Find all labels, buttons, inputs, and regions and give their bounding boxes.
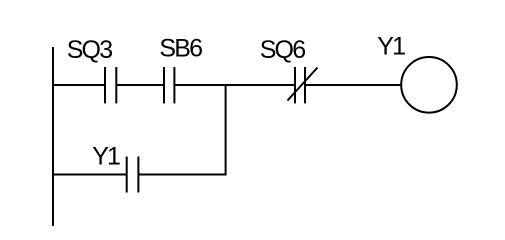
svg-text:Y1: Y1 <box>92 143 120 171</box>
svg-text:SQ3: SQ3 <box>67 36 113 64</box>
svg-text:Y1: Y1 <box>377 32 405 60</box>
svg-text:SB6: SB6 <box>159 35 202 63</box>
svg-text:SQ6: SQ6 <box>260 36 306 64</box>
